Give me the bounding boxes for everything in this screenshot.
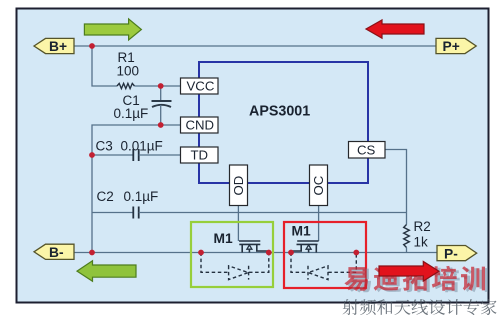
transistor M1 (left MOSFET) xyxy=(239,241,269,253)
watermark gray line xyxy=(343,299,497,315)
wire B+ to P+ (top rail) xyxy=(74,45,436,47)
svg-text:B+: B+ xyxy=(49,39,67,54)
body diode of M1 (left, dashed) xyxy=(201,253,269,280)
svg-text:APS3001: APS3001 xyxy=(249,104,310,120)
wire CND pin to left rail xyxy=(92,125,181,155)
svg-text:OD: OD xyxy=(231,176,246,196)
wire node to C2 xyxy=(92,212,133,214)
svg-text:VCC: VCC xyxy=(187,79,215,94)
svg-text:0.1µF: 0.1µF xyxy=(114,106,149,121)
node TD/C3 junction xyxy=(89,152,95,158)
pin CND xyxy=(181,117,219,133)
IC U1 APS3001 body xyxy=(199,62,368,183)
wire OC pin to M1b gate xyxy=(318,205,320,241)
component box (green) around M1a xyxy=(191,222,273,287)
capacitor C1 xyxy=(152,101,172,107)
node VCC/R1/C1 junction xyxy=(158,83,164,89)
svg-text:M1: M1 xyxy=(214,231,233,246)
wire node to C3 xyxy=(92,154,133,156)
wire B- to P- (bottom rail) xyxy=(74,252,437,254)
junction M1a source/body-diode xyxy=(198,250,204,256)
pin CS xyxy=(349,142,386,159)
svg-text:C2: C2 xyxy=(97,189,114,204)
pin OD xyxy=(230,165,248,206)
junction M1a drain/body-diode xyxy=(266,250,272,256)
wire CS pin to R2 xyxy=(385,150,407,225)
body diode of M1 (right, dashed) xyxy=(291,253,356,280)
component box (red) around M1b xyxy=(284,222,366,288)
capacitor C2 xyxy=(133,207,138,219)
wire C2 to CS net xyxy=(139,212,407,214)
svg-text:CS: CS xyxy=(357,143,376,158)
transistor M1 (right MOSFET, mirrored) xyxy=(291,241,319,253)
terminal flag B- xyxy=(34,244,74,260)
resistor R1 xyxy=(117,83,135,88)
wire C3 to TD pin xyxy=(139,154,181,156)
capacitor C3 xyxy=(133,149,138,161)
wire OD pin to M1a gate xyxy=(237,205,239,241)
pin VCC xyxy=(181,78,219,94)
wire R2 to bottom rail xyxy=(406,248,408,253)
svg-text:OC: OC xyxy=(311,175,326,195)
svg-text:R2: R2 xyxy=(414,219,431,234)
wire C1 top xyxy=(160,86,162,100)
terminal flag P- xyxy=(437,246,477,262)
junction M1b drain/body-diode xyxy=(353,250,359,256)
terminal flag P+ xyxy=(436,38,476,54)
current flow arrow (bottom left, green, left) xyxy=(77,261,136,282)
svg-text:M1: M1 xyxy=(292,224,311,239)
svg-text:B-: B- xyxy=(49,245,64,260)
left rail down to B- node xyxy=(91,155,93,253)
svg-text:C3: C3 xyxy=(96,139,113,154)
svg-text:P+: P+ xyxy=(443,39,460,54)
node CND/C1 junction xyxy=(158,122,164,128)
svg-text:P-: P- xyxy=(444,246,458,261)
current flow arrow (top right, red, left) xyxy=(366,20,424,38)
current flow arrow (top left, green, right) xyxy=(84,19,141,40)
wire C1 bottom xyxy=(160,105,162,125)
svg-text:CND: CND xyxy=(186,118,215,133)
svg-text:1k: 1k xyxy=(414,235,429,250)
svg-text:0.1µF: 0.1µF xyxy=(124,189,159,204)
svg-text:0.01µF: 0.01µF xyxy=(121,139,163,154)
wire R1 to VCC pin xyxy=(135,85,182,87)
watermark red line xyxy=(344,266,485,291)
pin OC xyxy=(310,165,328,206)
current flow arrow (bottom right, red, right) xyxy=(379,262,439,282)
svg-text:100: 100 xyxy=(117,63,140,78)
node B- junction xyxy=(89,250,95,256)
junction M1b source/body-diode xyxy=(288,250,294,256)
resistor R2 xyxy=(404,225,410,248)
terminal flag B+ xyxy=(34,38,74,54)
pin TD xyxy=(181,147,219,163)
node B+ junction xyxy=(89,43,95,49)
svg-text:TD: TD xyxy=(191,148,209,163)
watermark shadow xyxy=(347,267,488,292)
wire from node at B+ down to R1 xyxy=(92,46,117,86)
